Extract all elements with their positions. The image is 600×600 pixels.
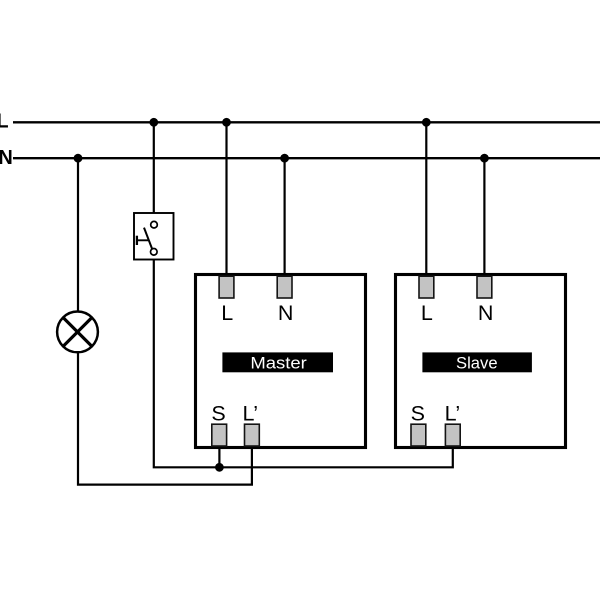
junction dot S line [215,463,224,472]
svg-text:L: L [221,301,233,325]
slave terminal L [419,276,434,298]
svg-text:L’: L’ [243,402,259,426]
wire lamp drop from N [77,158,79,311]
junction dot L/switch [149,118,158,127]
master box [196,275,366,448]
lamp cross stroke 2 [63,318,92,347]
junction dot L/slave [422,118,431,127]
svg-text:S: S [211,402,225,426]
wire master S stub [218,448,220,468]
svg-text:S: S [411,402,425,426]
junction dot N/lamp [74,154,83,163]
svg-text:L: L [0,110,9,132]
junction dot L/master [222,118,231,127]
master terminal L' [245,424,260,446]
junction dot N/master [280,154,289,163]
switch lever [144,228,152,250]
wire N line [13,157,600,159]
switch box [134,213,174,260]
wire switch drop from L [153,122,155,221]
slave terminal S [411,424,426,446]
slave box [396,275,566,448]
svg-text:Slave: Slave [456,354,498,373]
wire master L drop [225,122,227,277]
svg-text:Master: Master [250,354,307,373]
switch terminal top [151,221,158,228]
lamp cross stroke 1 [63,318,92,347]
svg-text:N: N [478,301,494,325]
lamp E1 [57,312,98,353]
svg-text:L: L [421,301,433,325]
master name bar [222,352,333,372]
pushbutton switch S1 [134,213,174,260]
wire lamp to master L' [78,352,252,484]
svg-text:L’: L’ [445,402,461,426]
wire L line [13,121,600,123]
svg-text:N: N [0,147,13,169]
master terminal S [212,424,227,446]
slave terminal L' [445,424,460,446]
svg-text:N: N [278,301,294,325]
master unit U1 [196,275,366,448]
master terminal L [219,276,234,298]
junction dot N/slave [480,154,489,163]
switch terminal bottom [151,249,158,256]
switch actuator arm [137,239,149,241]
wire switch to slave L' [154,255,453,467]
wire slave L drop [425,122,427,277]
master terminal N [277,276,292,298]
switch actuator bar [136,236,138,245]
slave name bar [422,352,532,372]
slave unit U2 [396,275,566,448]
slave terminal N [477,276,492,298]
wire master N drop [284,158,286,277]
lamp circle [57,312,98,353]
wire slave N drop [483,158,485,277]
